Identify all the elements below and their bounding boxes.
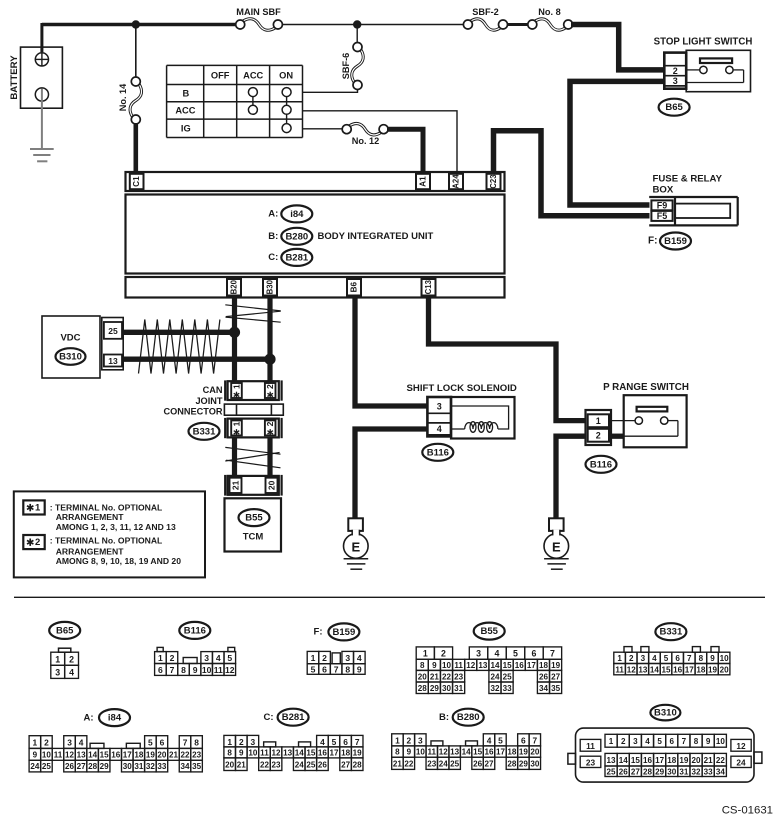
svg-text:11: 11 (427, 748, 436, 757)
stop light switch label (654, 36, 753, 47)
svg-text:2: 2 (441, 649, 446, 659)
svg-text:25: 25 (108, 326, 118, 336)
svg-text:B280: B280 (457, 712, 480, 723)
svg-text:16: 16 (515, 661, 525, 670)
wire B6 to solenoid pin 3 (355, 298, 427, 407)
connector B116 pinout (155, 647, 236, 675)
svg-text:29: 29 (100, 762, 110, 771)
twisted pair crossover (upper) (225, 305, 280, 322)
svg-text:No. 12: No. 12 (352, 136, 380, 146)
svg-text:27: 27 (551, 672, 561, 681)
BIU pin C1 (130, 174, 144, 189)
fuse SBF-2 (463, 7, 507, 30)
wire stop light pin 3 to F9 (570, 81, 665, 205)
VDC pin 13 (104, 355, 122, 367)
fuse F9 (651, 200, 672, 210)
stop light switch connector (pins 2,3) (664, 53, 686, 89)
svg-text:11: 11 (586, 741, 595, 751)
BIU pin B20 (227, 279, 241, 296)
stop light switch body (686, 50, 750, 91)
svg-text:31: 31 (134, 762, 144, 771)
svg-text:16: 16 (111, 750, 121, 759)
svg-text:13: 13 (478, 661, 488, 670)
svg-text:A1: A1 (419, 176, 428, 187)
svg-text:16: 16 (485, 748, 495, 757)
P range switch connector (586, 410, 612, 445)
connector B280 pinout label (439, 709, 484, 726)
svg-text:17: 17 (496, 748, 506, 757)
svg-text:6: 6 (670, 737, 675, 746)
svg-text:12: 12 (736, 741, 746, 751)
svg-text:17: 17 (527, 661, 537, 670)
CAN joint connector row 1 (225, 380, 281, 400)
svg-text:16: 16 (673, 665, 683, 674)
svg-text:2: 2 (621, 737, 626, 746)
svg-text:4: 4 (320, 737, 325, 747)
svg-text:24: 24 (490, 672, 500, 681)
note *1 symbol (23, 500, 44, 514)
svg-text:1: 1 (617, 654, 622, 663)
VDC pin column (102, 318, 123, 370)
svg-text:24: 24 (295, 760, 305, 769)
svg-text:26: 26 (65, 762, 75, 771)
svg-text:22: 22 (716, 756, 726, 765)
svg-text:27: 27 (485, 759, 495, 768)
svg-text:31: 31 (679, 767, 689, 776)
node junction top bus / No.14 branch (132, 20, 140, 28)
svg-text:27: 27 (631, 767, 641, 776)
svg-text:B55: B55 (245, 513, 263, 524)
svg-text:6: 6 (521, 735, 526, 745)
svg-text:15: 15 (631, 756, 641, 765)
svg-text:20: 20 (692, 756, 702, 765)
svg-text:A:: A: (268, 209, 278, 220)
svg-text:25: 25 (503, 672, 513, 681)
svg-text:9: 9 (706, 737, 711, 746)
svg-text:SHIFT LOCK SOLENOID: SHIFT LOCK SOLENOID (407, 383, 517, 394)
svg-text:20: 20 (157, 750, 167, 759)
svg-text:19: 19 (708, 665, 718, 674)
BIU pin C23 (487, 174, 501, 189)
svg-text:BATTERY: BATTERY (9, 55, 20, 100)
svg-text:18: 18 (696, 665, 706, 674)
svg-text:32: 32 (692, 767, 702, 776)
connector i84 pinout label (83, 709, 130, 726)
svg-text:5: 5 (148, 738, 153, 748)
svg-text:1: 1 (311, 653, 316, 663)
svg-text:4: 4 (69, 667, 74, 677)
svg-text:: TERMINAL No. OPTIONAL: : TERMINAL No. OPTIONAL (50, 502, 163, 512)
CAN joint connector row 2 pin *2 (265, 420, 276, 435)
shift lock solenoid connector (427, 397, 451, 436)
svg-text:8: 8 (395, 748, 400, 757)
svg-text:20: 20 (225, 760, 235, 769)
svg-text:26: 26 (539, 672, 549, 681)
svg-text:2: 2 (265, 384, 275, 389)
P range switch label (603, 382, 689, 393)
svg-text:2: 2 (69, 654, 74, 664)
svg-text:24: 24 (30, 762, 40, 771)
svg-text:C1: C1 (132, 176, 141, 187)
svg-text:SBF-6: SBF-6 (341, 53, 351, 80)
svg-text:30: 30 (530, 759, 540, 768)
svg-text:i84: i84 (108, 713, 122, 724)
wire C23 to F5 (494, 131, 650, 216)
svg-text:F5: F5 (657, 211, 668, 221)
svg-text:B65: B65 (56, 625, 74, 636)
svg-text:10: 10 (720, 654, 730, 663)
svg-text:2: 2 (322, 653, 327, 663)
svg-text:4: 4 (357, 653, 362, 663)
svg-text:34: 34 (716, 767, 726, 776)
svg-text:23: 23 (454, 672, 464, 681)
svg-text:4: 4 (495, 649, 500, 659)
svg-text:6: 6 (343, 737, 348, 747)
svg-text:2: 2 (35, 537, 40, 548)
battery (9, 47, 62, 108)
svg-text:2: 2 (239, 737, 244, 747)
svg-text:21: 21 (169, 750, 179, 759)
svg-text:15: 15 (662, 665, 672, 674)
svg-text:8: 8 (227, 749, 232, 758)
svg-text:33: 33 (157, 762, 167, 771)
battery B+ feed wire (top bus) (42, 23, 241, 52)
svg-text:10: 10 (202, 665, 212, 675)
svg-text:6: 6 (158, 665, 163, 675)
connector B310 (VDC) (56, 348, 86, 365)
svg-text:29: 29 (655, 767, 665, 776)
ground (battery) (30, 149, 54, 161)
svg-text:E: E (552, 540, 561, 555)
svg-text:5: 5 (664, 654, 669, 663)
note *2 symbol (23, 535, 44, 549)
shift lock solenoid label (407, 383, 517, 394)
svg-text:3: 3 (418, 735, 423, 745)
wire junction to fuse No.14 (135, 25, 137, 78)
svg-text:24: 24 (439, 759, 449, 768)
svg-text:3: 3 (641, 654, 646, 663)
svg-text:26: 26 (619, 767, 629, 776)
svg-text:TCM: TCM (243, 532, 264, 543)
svg-text:1: 1 (158, 653, 163, 663)
svg-text:29: 29 (430, 684, 440, 693)
wire SBF-2 to No.8 (507, 23, 528, 26)
svg-text:15: 15 (100, 750, 110, 759)
svg-text:B331: B331 (193, 426, 216, 437)
svg-text:19: 19 (679, 756, 689, 765)
svg-text:3: 3 (345, 653, 350, 663)
BIU bottom connector strip (126, 277, 505, 298)
svg-text:25: 25 (607, 767, 617, 776)
connector B116 (shift lock solenoid) (422, 444, 453, 461)
svg-text:3: 3 (67, 738, 72, 748)
svg-text:32: 32 (490, 684, 500, 693)
svg-text:P RANGE SWITCH: P RANGE SWITCH (603, 382, 689, 393)
svg-text:12: 12 (272, 749, 282, 758)
P range switch body (611, 395, 687, 447)
VDC unit (42, 316, 100, 378)
svg-text:18: 18 (507, 748, 517, 757)
svg-text:12: 12 (225, 665, 235, 675)
BODY INTEGRATED UNIT label (318, 231, 434, 242)
svg-text:10: 10 (442, 661, 452, 670)
figure number (722, 805, 773, 817)
svg-text:B310: B310 (654, 708, 677, 719)
svg-text:B310: B310 (59, 352, 82, 363)
svg-text:7: 7 (170, 665, 175, 675)
connector A: i84 (268, 205, 312, 222)
twisted pair zigzag (CAN bus) (139, 320, 220, 374)
fuse & relay box body (649, 197, 738, 225)
connector B281 pinout label (263, 709, 308, 726)
svg-text:13: 13 (108, 356, 118, 366)
svg-text:17: 17 (655, 756, 665, 765)
wire ACC row to BIU pin A24 (303, 111, 458, 172)
svg-text:4: 4 (79, 738, 84, 748)
svg-text:25: 25 (306, 760, 316, 769)
svg-text:21: 21 (704, 756, 714, 765)
svg-text:OFF: OFF (211, 70, 230, 80)
svg-text:28: 28 (353, 760, 363, 769)
fuse & relay box label (653, 173, 723, 195)
svg-text:4: 4 (437, 424, 442, 434)
svg-text:4: 4 (652, 654, 657, 663)
fuse No. 8 (528, 7, 573, 30)
svg-text:3: 3 (633, 737, 638, 746)
svg-text:3: 3 (437, 401, 442, 411)
svg-text:2: 2 (407, 735, 412, 745)
connector B116 (P range switch) (586, 456, 617, 473)
svg-text:23: 23 (427, 759, 437, 768)
CAN JOINT CONNECTOR label (163, 385, 222, 416)
svg-text:11: 11 (54, 750, 63, 759)
terminal arrangement note box (14, 491, 205, 577)
svg-text:20: 20 (418, 672, 428, 681)
svg-text:2: 2 (673, 66, 678, 76)
svg-text:16: 16 (318, 749, 328, 758)
svg-text:6: 6 (675, 654, 680, 663)
connector B65 pinout (51, 648, 79, 678)
svg-text:B331: B331 (660, 627, 683, 638)
svg-text:2: 2 (629, 654, 634, 663)
svg-text:15: 15 (503, 661, 513, 670)
svg-text:7: 7 (183, 738, 188, 748)
svg-text:19: 19 (519, 748, 529, 757)
svg-text:30: 30 (667, 767, 677, 776)
svg-text:35: 35 (192, 762, 202, 771)
svg-text:1: 1 (423, 649, 428, 659)
svg-text:B159: B159 (664, 236, 687, 247)
svg-text:13: 13 (77, 750, 87, 759)
svg-text:25: 25 (450, 759, 460, 768)
connector i84 pinout (29, 736, 202, 772)
svg-text:33: 33 (704, 767, 714, 776)
svg-text:8: 8 (345, 665, 350, 675)
svg-text:8: 8 (694, 737, 699, 746)
TCM connector row (225, 475, 281, 496)
svg-text:10: 10 (716, 737, 726, 746)
TCM label (243, 532, 264, 543)
svg-text:18: 18 (539, 661, 549, 670)
connector B55 pinout label (474, 623, 505, 640)
BIU pin B30 (263, 279, 277, 296)
svg-text:22: 22 (442, 672, 452, 681)
svg-text:1: 1 (232, 421, 242, 426)
svg-text:B116: B116 (184, 625, 206, 636)
svg-text:VDC: VDC (60, 333, 80, 344)
svg-text:14: 14 (650, 665, 660, 674)
svg-text:A:: A: (83, 712, 93, 723)
svg-text:25: 25 (42, 762, 52, 771)
svg-text:26: 26 (473, 759, 483, 768)
svg-text:B281: B281 (282, 712, 305, 723)
svg-text:B116: B116 (427, 447, 449, 458)
svg-text:4: 4 (487, 735, 492, 745)
wire VDC pin 13 to CAN low (123, 357, 270, 362)
svg-text:6: 6 (322, 665, 327, 675)
svg-text:B65: B65 (665, 102, 683, 113)
svg-text:17: 17 (123, 750, 133, 759)
svg-text:21: 21 (231, 480, 241, 490)
connector B65 pinout label (49, 622, 80, 639)
svg-text:24: 24 (736, 757, 746, 767)
svg-text:9: 9 (407, 748, 412, 757)
wire No.14 to BIU pin C1 (134, 123, 139, 172)
svg-text:18: 18 (134, 750, 144, 759)
twisted pair crossover (lower) (225, 447, 280, 467)
svg-text:23: 23 (192, 750, 202, 759)
svg-text:B159: B159 (333, 627, 356, 638)
svg-text:3: 3 (204, 653, 209, 663)
svg-text:23: 23 (272, 760, 282, 769)
wire B30 to CAN joint connector *2 (267, 298, 272, 382)
connector B331 (CAN joint) (189, 423, 220, 440)
svg-text:17: 17 (685, 665, 695, 674)
svg-text:12: 12 (65, 750, 75, 759)
svg-text:BOX: BOX (653, 185, 674, 196)
svg-text:2: 2 (596, 431, 601, 441)
svg-text:CS-01631: CS-01631 (722, 805, 773, 817)
svg-text:9: 9 (432, 661, 437, 670)
svg-text:1: 1 (395, 735, 400, 745)
svg-text:28: 28 (507, 759, 517, 768)
svg-text:21: 21 (430, 672, 440, 681)
svg-text:AMONG 1, 2, 3, 11, 12 AND 13: AMONG 1, 2, 3, 11, 12 AND 13 (56, 522, 176, 532)
svg-text:CONNECTOR: CONNECTOR (163, 407, 222, 417)
svg-text:11: 11 (615, 665, 624, 674)
svg-text:19: 19 (551, 661, 561, 670)
svg-text:7: 7 (334, 665, 339, 675)
VDC pin 25 (104, 322, 122, 339)
svg-text:34: 34 (181, 762, 191, 771)
svg-text:6: 6 (160, 738, 165, 748)
svg-text:B:: B: (268, 231, 278, 242)
svg-text:CAN: CAN (203, 385, 223, 395)
wire P range switch pin 2 to ground (556, 436, 624, 518)
connector B55 (TCM) (239, 509, 270, 526)
battery ground wire (41, 89, 43, 150)
svg-text:18: 18 (667, 756, 677, 765)
svg-text:ACC: ACC (243, 70, 263, 80)
svg-text:10: 10 (248, 749, 258, 758)
CAN joint connector row 1 pin *1 (231, 383, 242, 398)
wire solenoid pin 4 to ground (355, 429, 427, 518)
svg-text:1: 1 (55, 654, 60, 664)
svg-text:5: 5 (332, 737, 337, 747)
svg-text:7: 7 (550, 649, 555, 659)
svg-text:20: 20 (267, 480, 277, 490)
svg-text:B30: B30 (266, 279, 275, 294)
svg-text:ON: ON (279, 70, 293, 80)
ignition switch contact table (167, 65, 303, 137)
svg-text:F:: F: (648, 235, 657, 246)
wire SBF-6 branch (356, 25, 358, 44)
svg-text:8: 8 (699, 654, 704, 663)
svg-text:14: 14 (295, 749, 305, 758)
svg-text:11: 11 (260, 749, 269, 758)
TCM pin 21 (230, 478, 242, 493)
svg-text:15: 15 (473, 748, 483, 757)
svg-text:14: 14 (462, 748, 472, 757)
svg-text:C23: C23 (489, 174, 498, 189)
svg-text:13: 13 (450, 748, 460, 757)
CAN joint connector row 2 (225, 418, 281, 438)
wire No.12 to BIU pin A1 (387, 129, 423, 172)
svg-text:5: 5 (227, 653, 232, 663)
svg-text:29: 29 (519, 759, 529, 768)
svg-text:5: 5 (513, 649, 518, 659)
svg-text:: TERMINAL No. OPTIONAL: : TERMINAL No. OPTIONAL (50, 536, 163, 546)
svg-text:15: 15 (306, 749, 316, 758)
svg-text:19: 19 (353, 749, 363, 758)
svg-text:5: 5 (498, 735, 503, 745)
node junction CAN low (264, 354, 275, 365)
svg-text:B281: B281 (285, 252, 308, 263)
svg-text:1: 1 (33, 738, 38, 748)
svg-text:21: 21 (237, 760, 247, 769)
node junction CAN high (229, 327, 240, 338)
svg-text:B:: B: (439, 712, 449, 723)
svg-text:28: 28 (88, 762, 98, 771)
connector B280 pinout (392, 734, 541, 770)
BIU pin C13 (422, 279, 436, 296)
BIU top connector strip (126, 172, 505, 191)
svg-text:32: 32 (146, 762, 156, 771)
BIU pin A1 (416, 174, 430, 189)
connector B65 (stop light switch) (659, 99, 690, 116)
connector B116 pinout label (179, 622, 210, 639)
fuse No. 12 (342, 123, 388, 146)
svg-text:ACC: ACC (175, 106, 195, 116)
fuse No. 14 (118, 77, 142, 124)
svg-text:14: 14 (88, 750, 98, 759)
svg-text:A24: A24 (452, 174, 461, 189)
svg-text:22: 22 (404, 759, 414, 768)
connector B331 pinout (614, 647, 730, 675)
svg-text:1: 1 (227, 737, 232, 747)
svg-text:18: 18 (341, 749, 351, 758)
svg-text:IG: IG (181, 124, 191, 134)
svg-text:C13: C13 (424, 279, 433, 294)
svg-text:4: 4 (216, 653, 221, 663)
separator line (14, 596, 765, 598)
svg-text:12: 12 (466, 661, 476, 670)
svg-text:14: 14 (619, 756, 629, 765)
svg-text:MAIN SBF: MAIN SBF (236, 7, 281, 17)
connector B159 pinout label (314, 623, 360, 640)
CAN joint connector row 1 pin *2 (265, 383, 276, 398)
svg-text:21: 21 (393, 759, 403, 768)
